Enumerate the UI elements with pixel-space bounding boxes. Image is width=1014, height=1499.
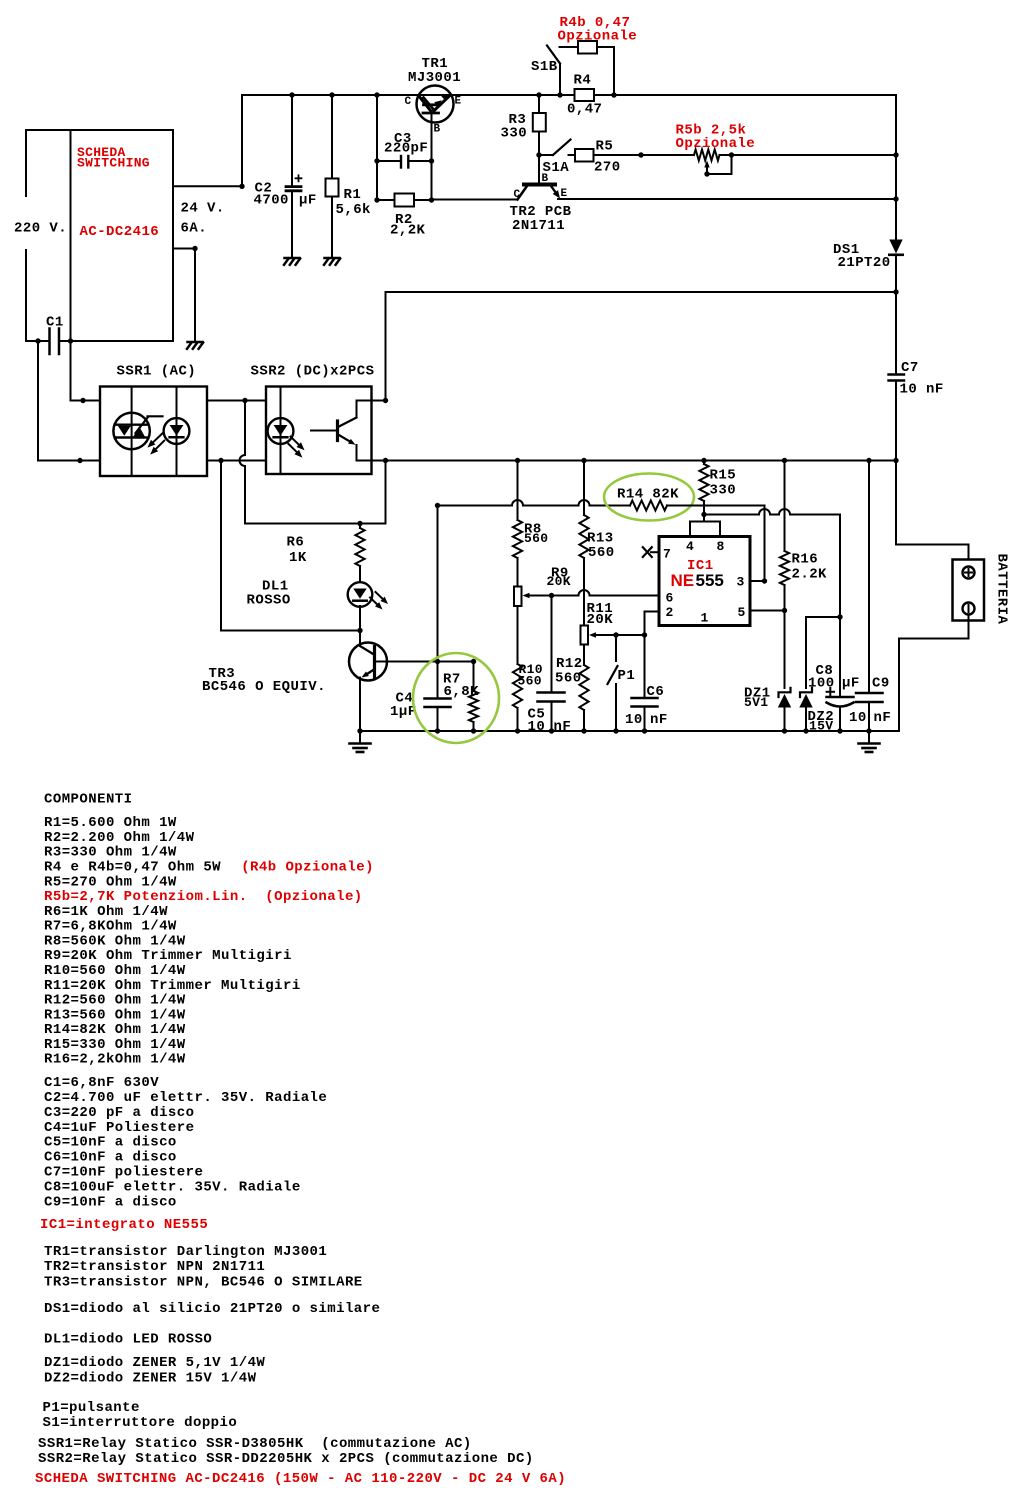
wire R1 upper xyxy=(331,95,333,179)
label pin 8 xyxy=(717,539,725,554)
junction dot 460 bus at SSR2 emitter xyxy=(383,458,388,463)
junction dot R7 at rail xyxy=(471,728,476,733)
wire SSR2 collector to 292-line xyxy=(385,292,387,401)
junction dot 505-line left end xyxy=(435,503,440,508)
list line R1 xyxy=(44,815,177,831)
label R15 xyxy=(710,468,737,484)
label AC-DC2416 xyxy=(80,224,160,240)
wire C5 upper xyxy=(551,596,553,693)
TR3 base bar xyxy=(373,647,376,679)
SSR1 led circle xyxy=(164,418,190,444)
svg-text:B: B xyxy=(434,124,441,136)
svg-text:6,8K: 6,8K xyxy=(444,684,480,700)
list line R11 xyxy=(44,978,301,994)
list line SSR2 xyxy=(38,1451,534,1467)
svg-text:C9: C9 xyxy=(872,676,890,692)
svg-text:C6=10nF a disco: C6=10nF a disco xyxy=(44,1150,177,1166)
list line C2 xyxy=(44,1090,327,1106)
label C5 xyxy=(528,707,546,723)
wire 220V line1 to box top-left xyxy=(26,130,71,196)
junction dot R2 right node xyxy=(429,197,434,202)
junction dot C3 right xyxy=(429,158,434,163)
svg-text:R14 82K: R14 82K xyxy=(617,487,679,503)
wire box corner down to SSR1 top-left pin xyxy=(71,341,101,401)
label R8 xyxy=(524,522,542,538)
wire +24V top rail xyxy=(242,94,896,96)
junction dot R8 top xyxy=(515,458,520,463)
list line R16 xyxy=(44,1052,186,1068)
svg-text:SSR2 (DC)x2PCS: SSR2 (DC)x2PCS xyxy=(251,364,375,380)
label 2N1711 xyxy=(512,218,565,234)
svg-text:C3=220 pF a disco: C3=220 pF a disco xyxy=(44,1105,194,1121)
svg-text:R5: R5 xyxy=(596,139,614,155)
wire 505-line to pin3 corner xyxy=(704,506,765,582)
label C of TR2 xyxy=(514,189,521,201)
label Opzionale of R4b xyxy=(558,29,638,45)
label SSR2 (DC)x2PCS xyxy=(251,364,375,380)
wire C9 upper xyxy=(868,461,870,694)
label DZ2 xyxy=(808,709,835,725)
resistor R4 xyxy=(575,89,595,101)
label 330 of R3 xyxy=(501,126,528,142)
ground at C9 xyxy=(859,731,880,752)
wire right rail to C7 xyxy=(895,292,897,374)
label pin 6 xyxy=(666,591,674,606)
label R14 82K xyxy=(617,487,679,503)
capacitor C8 electrolytic xyxy=(827,697,854,707)
capacitor C7 xyxy=(889,375,905,381)
SSR1 triac wire xyxy=(131,387,133,477)
label 0,47 of R4 xyxy=(567,102,602,118)
TR2 emitter diagonal with arrow xyxy=(551,186,560,199)
resistor R6 xyxy=(355,524,364,583)
list line S1 xyxy=(43,1415,238,1431)
resistor R3 xyxy=(533,113,546,132)
list line SCHEDA xyxy=(35,1471,566,1487)
wire 514-line with hops xyxy=(704,509,840,515)
wire led drive horizontal xyxy=(221,630,360,632)
SSR1 led wire xyxy=(176,387,178,477)
wire 292-line xyxy=(386,291,897,293)
NE555 pins 4 8 staple xyxy=(690,515,720,537)
svg-text:R5=270 Ohm 1/4W: R5=270 Ohm 1/4W xyxy=(44,874,177,890)
label C8 xyxy=(816,663,834,679)
wire R6 top line xyxy=(245,523,386,525)
svg-text:R4: R4 xyxy=(574,73,592,89)
label R1 xyxy=(344,187,362,203)
trimmer R9 box xyxy=(514,587,522,607)
TR2 collector diagonal xyxy=(518,186,528,200)
label R4b 0,47 xyxy=(560,15,631,31)
DL1 arrow 2 xyxy=(376,592,389,604)
wire pin6 line with hop xyxy=(530,590,659,596)
led DL1 circle xyxy=(348,582,373,607)
TR1 internal arrow 2 xyxy=(441,94,449,101)
svg-text:nF: nF xyxy=(554,719,572,735)
SSR2 led arrow 1 xyxy=(291,437,305,451)
label DS1 xyxy=(833,242,860,258)
svg-text:R15=330 Ohm 1/4W: R15=330 Ohm 1/4W xyxy=(44,1037,186,1053)
ground at TR3 emitter xyxy=(350,731,371,752)
wire R1 lower xyxy=(331,197,333,258)
polarity + of C8 xyxy=(827,688,834,696)
list line C9 xyxy=(44,1194,177,1210)
svg-text:560: 560 xyxy=(524,531,548,546)
list line C1 xyxy=(44,1075,159,1091)
junction dot pin3 node xyxy=(762,578,767,583)
capacitor C1 xyxy=(50,329,60,355)
wire R2 right xyxy=(414,199,432,201)
label nF of C6 xyxy=(650,712,668,728)
svg-text:21PT20: 21PT20 xyxy=(838,255,891,271)
SSR1 triac bars xyxy=(117,425,147,438)
label R11 xyxy=(587,601,614,617)
wire SSR1-SSR2 top link xyxy=(207,400,266,402)
wire S1A to R5 xyxy=(569,154,576,156)
svg-text:SCHEDA SWITCHING AC-DC2416 (15: SCHEDA SWITCHING AC-DC2416 (150W - AC 11… xyxy=(35,1471,566,1487)
wire C1 to box corner xyxy=(60,340,71,342)
SSR2 led arrow 2 xyxy=(288,444,302,458)
svg-text:560: 560 xyxy=(518,674,542,689)
transistor TR3 circle xyxy=(349,643,387,681)
wire right rail to battery plus xyxy=(896,461,969,560)
list line R10 xyxy=(44,963,186,979)
resistor R10 xyxy=(513,664,522,731)
trimmer R11 wiper arrow xyxy=(589,632,600,637)
list line R4 with red note xyxy=(44,860,374,876)
label TR2 PCB xyxy=(510,204,572,220)
svg-text:DZ1=diodo ZENER 5,1V 1/4W: DZ1=diodo ZENER 5,1V 1/4W xyxy=(44,1355,265,1371)
svg-text:24 V.: 24 V. xyxy=(181,201,225,217)
list line P1 xyxy=(43,1400,140,1416)
wire down to SSR1 bottom-left pin xyxy=(38,341,100,461)
wire TR1 base to R2 node xyxy=(431,161,433,200)
label uF of C2 xyxy=(299,193,317,209)
wire C2 upper xyxy=(291,95,293,185)
junction dot R12 at rail xyxy=(581,728,586,733)
svg-text:330: 330 xyxy=(710,483,737,499)
capacitor C3 xyxy=(401,156,408,168)
svg-text:R1=5.600 Ohm 1W: R1=5.600 Ohm 1W xyxy=(44,815,177,831)
junction dot C2 on rail xyxy=(289,92,294,97)
wire right rail below DS1 xyxy=(895,255,897,292)
zener DZ1 xyxy=(778,611,791,732)
wire 514-line down to C8 node xyxy=(839,515,841,618)
label TR3 xyxy=(209,666,236,682)
junction dot DZ1 at rail xyxy=(782,728,787,733)
svg-text:7: 7 xyxy=(663,547,671,562)
svg-text:10: 10 xyxy=(625,712,643,728)
NE555 pin7 stub with X xyxy=(643,547,659,557)
wire S1B to R4b xyxy=(560,46,579,48)
wire C9 lower xyxy=(868,702,870,731)
svg-text:2.2K: 2.2K xyxy=(792,567,828,583)
SSR2 phototransistor collector xyxy=(338,401,357,428)
label 2.2K xyxy=(792,567,828,583)
wire C8 lower xyxy=(839,707,841,732)
wire 0V output xyxy=(173,249,195,342)
list line SSR1 xyxy=(38,1436,472,1452)
label SSR1 (AC) xyxy=(117,364,197,380)
label C3 xyxy=(394,131,412,147)
svg-text:R9=20K Ohm Trimmer Multigiri: R9=20K Ohm Trimmer Multigiri xyxy=(44,948,292,964)
label E of TR1 xyxy=(455,96,462,108)
label 10 of C6 xyxy=(625,712,643,728)
label 6,8K xyxy=(444,684,480,700)
wire R2 left xyxy=(377,199,395,201)
junction dot bottom link xyxy=(218,458,223,463)
trimmer R11 box xyxy=(581,626,589,645)
junction dot R5b right xyxy=(729,152,734,157)
label R9 xyxy=(551,566,569,582)
list line R8 xyxy=(44,933,186,949)
wire R5b to right rail xyxy=(720,154,897,156)
label R3 xyxy=(509,112,527,128)
battery minus terminal xyxy=(963,603,975,615)
label pin 1 xyxy=(701,611,709,626)
wire C8 upper xyxy=(839,617,841,696)
junction dot SSR1 bottom-left pin wire xyxy=(77,458,82,463)
wire 460 bus xyxy=(357,460,897,462)
junction dot R5 line at right rail xyxy=(893,152,898,157)
SSR2 led diode xyxy=(274,425,288,437)
ic IC1 NE555 box xyxy=(659,537,750,626)
svg-text:5V1: 5V1 xyxy=(744,695,768,710)
wire TR2 emitter line xyxy=(558,198,896,200)
TR3 base wire xyxy=(375,661,474,663)
list line R2 xyxy=(44,830,195,846)
svg-text:Opzionale: Opzionale xyxy=(676,136,756,152)
label TR1 xyxy=(422,56,449,72)
TR3 collector diagonal xyxy=(360,646,374,655)
svg-text:µF: µF xyxy=(299,193,317,209)
list line R7 xyxy=(44,919,177,935)
list line R5 xyxy=(44,874,177,890)
svg-text:E: E xyxy=(561,188,568,200)
junction dot S1A node xyxy=(536,152,541,157)
label 330 of R15 xyxy=(710,483,737,499)
wire 220V line1 lower segment xyxy=(25,250,27,341)
SSR2 led wire xyxy=(280,387,282,475)
resistor R7 xyxy=(469,662,478,732)
svg-text:S1=interruttore doppio: S1=interruttore doppio xyxy=(43,1415,238,1431)
label C2 xyxy=(255,181,273,197)
svg-text:R7=6,8KOhm 1/4W: R7=6,8KOhm 1/4W xyxy=(44,919,177,935)
list line DS1 xyxy=(44,1301,380,1317)
junction dot R6 top xyxy=(357,521,362,526)
wire C5 lower xyxy=(551,702,553,732)
TR1 internal base bar 2 xyxy=(423,112,439,115)
svg-text:nF: nF xyxy=(874,710,892,726)
wire R9 to R10 xyxy=(517,606,519,664)
svg-text:R6=1K Ohm 1/4W: R6=1K Ohm 1/4W xyxy=(44,904,168,920)
label R6 xyxy=(287,535,305,551)
TR1 internal collector diagonal xyxy=(419,96,433,113)
junction dot SSR2 collector node xyxy=(383,398,388,403)
wire DL1 to TR3 xyxy=(359,606,361,631)
junction dot C3 left xyxy=(374,158,379,163)
svg-text:ROSSO: ROSSO xyxy=(247,593,291,609)
SSR1 opto arrow 1 xyxy=(147,434,162,448)
svg-text:220pF: 220pF xyxy=(384,141,428,157)
wire R14 to R15 junction xyxy=(667,505,704,507)
svg-text:10: 10 xyxy=(528,719,546,735)
label IC1 xyxy=(687,558,714,574)
list line R14 xyxy=(44,1022,186,1038)
TR3 emitter diagonal xyxy=(362,670,375,678)
junction dot R15 top xyxy=(701,458,706,463)
svg-text:µF: µF xyxy=(842,676,860,692)
label pin 3 xyxy=(737,575,745,590)
label 220pF xyxy=(384,141,428,157)
label 560 of R10 xyxy=(518,674,542,689)
wire C6 lower xyxy=(644,707,646,732)
junction dot TR3 collector node xyxy=(357,628,362,633)
label 10 nF of C7 xyxy=(900,382,944,398)
SSR1 triac gate xyxy=(136,416,163,433)
label R7 xyxy=(443,672,461,688)
svg-text:6: 6 xyxy=(666,591,674,606)
wire R11 wiper line xyxy=(597,634,645,636)
svg-text:Opzionale: Opzionale xyxy=(558,29,638,45)
junction dot C5 at rail xyxy=(549,728,554,733)
wire C3 left xyxy=(377,160,401,162)
resistor R15 xyxy=(699,461,708,522)
list line R13 xyxy=(44,1007,186,1023)
capacitor C2 electrolytic xyxy=(286,187,301,191)
ground at SCHEDA 0V output xyxy=(187,342,203,349)
wire R3 upper xyxy=(538,95,540,113)
wire bottom rail xyxy=(360,730,899,732)
svg-text:C9=10nF a disco: C9=10nF a disco xyxy=(44,1194,177,1210)
svg-text:2N1711: 2N1711 xyxy=(512,218,565,234)
label 560 of R13 xyxy=(588,545,615,561)
wire NE555 pin5 xyxy=(750,610,785,612)
svg-text:8: 8 xyxy=(717,539,725,554)
label 220 V. xyxy=(14,221,67,237)
svg-text:E: E xyxy=(455,96,462,108)
junction dot box bottom-left corner xyxy=(68,338,73,343)
resistor R12 xyxy=(579,645,588,732)
switch S1A arm xyxy=(553,140,571,156)
wire C3R2 vertical xyxy=(376,95,378,200)
svg-text:NE: NE xyxy=(671,571,695,590)
svg-text:(R4b Opzionale): (R4b Opzionale) xyxy=(241,860,374,876)
svg-text:4700: 4700 xyxy=(254,193,289,209)
svg-text:SSR1=Relay Statico SSR-D3805HK: SSR1=Relay Statico SSR-D3805HK (commutaz… xyxy=(38,1436,472,1452)
junction dot 0V output corner xyxy=(192,246,197,251)
svg-text:330: 330 xyxy=(501,126,528,142)
junction dot emitter line at right rail xyxy=(893,196,898,201)
svg-text:270: 270 xyxy=(594,160,621,176)
junction dot on R5 wire xyxy=(638,152,643,157)
label 1K xyxy=(289,550,307,566)
wire R2 node to TR2 collector xyxy=(432,199,518,201)
wire R3 lower xyxy=(538,132,540,156)
label 15V xyxy=(809,719,833,734)
label pin 5 xyxy=(738,605,746,620)
label B of TR1 xyxy=(434,124,441,136)
junction dot C8 at rail xyxy=(837,728,842,733)
SSR1 opto arrow 2 xyxy=(150,441,164,455)
junction dot C6 at rail xyxy=(642,728,647,733)
wire right rail upper xyxy=(895,95,897,239)
svg-text:AC-DC2416: AC-DC2416 xyxy=(80,224,160,240)
svg-text:nF: nF xyxy=(650,712,668,728)
svg-text:DZ2=diodo ZENER 15V 1/4W: DZ2=diodo ZENER 15V 1/4W xyxy=(44,1370,257,1386)
label P1 xyxy=(618,668,636,684)
svg-text:C: C xyxy=(514,189,521,201)
label C1 xyxy=(46,315,64,331)
svg-text:6A.: 6A. xyxy=(181,221,208,237)
svg-text:P1=pulsante: P1=pulsante xyxy=(43,1400,140,1416)
junction dot R13 top xyxy=(581,458,586,463)
capacitor C5 xyxy=(538,693,565,702)
list line TR3 xyxy=(44,1274,363,1290)
svg-text:C: C xyxy=(405,96,412,108)
label E of TR2 xyxy=(561,188,568,200)
svg-text:C5=10nF a disco: C5=10nF a disco xyxy=(44,1135,177,1151)
list header COMPONENTI xyxy=(44,791,133,807)
label 1uF of C4 xyxy=(390,704,417,720)
wire S1B riser xyxy=(559,64,561,96)
svg-text:DS1=diodo al silicio 21PT20 o: DS1=diodo al silicio 21PT20 o similare xyxy=(44,1301,380,1317)
label DL1 xyxy=(262,579,289,595)
TR1 internal base bar 1 xyxy=(424,103,437,106)
list line R15 xyxy=(44,1037,186,1053)
svg-text:R16=2,2kOhm 1/4W: R16=2,2kOhm 1/4W xyxy=(44,1052,186,1068)
SSR2 led circle xyxy=(268,418,294,444)
label 21PT20 xyxy=(838,255,891,271)
resistor R8 xyxy=(513,461,522,587)
wire TR2 base up xyxy=(538,155,540,183)
svg-text:560: 560 xyxy=(555,671,582,687)
resistor R4b xyxy=(578,41,597,54)
label R13 xyxy=(587,531,614,547)
label 10 of C5 xyxy=(528,719,546,735)
svg-text:2: 2 xyxy=(666,605,674,620)
highlight ellipse around R14 xyxy=(604,474,694,521)
junction dot R16 top xyxy=(782,458,787,463)
label C6 xyxy=(647,684,665,700)
svg-text:5: 5 xyxy=(738,605,746,620)
list line DZ2 xyxy=(44,1370,257,1386)
svg-text:BATTERIA: BATTERIA xyxy=(994,554,1010,625)
label S1A xyxy=(543,160,570,176)
SSR2 phototransistor emitter xyxy=(338,435,357,461)
svg-text:SSR1 (AC): SSR1 (AC) xyxy=(117,364,197,380)
label 560 of R8 xyxy=(524,531,548,546)
wire 505-line with hops xyxy=(438,500,631,505)
battery terminal block xyxy=(953,560,985,621)
label DZ1 xyxy=(744,686,771,702)
junction dot TR3 base at R7 corner xyxy=(471,659,476,664)
junction dot R1 on rail xyxy=(329,92,334,97)
wire R5b wiper to right terminal xyxy=(707,155,732,174)
SSR1 triac triangles xyxy=(118,426,145,437)
R5b wiper arrow xyxy=(704,161,709,175)
wire right rail below C7 xyxy=(895,381,897,461)
svg-text:1K: 1K xyxy=(289,550,307,566)
svg-text:10: 10 xyxy=(849,710,867,726)
svg-text:R16: R16 xyxy=(792,552,819,568)
svg-text:555: 555 xyxy=(696,571,724,590)
junction dot C8 node xyxy=(837,614,842,619)
resistor R5 xyxy=(575,149,594,162)
wire C4 column upper xyxy=(437,506,439,699)
TR1 internal arrow 1 xyxy=(434,100,442,107)
svg-text:1: 1 xyxy=(701,611,709,626)
